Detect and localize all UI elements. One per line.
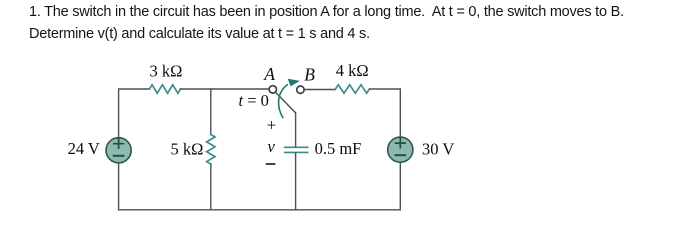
- switch terminal B (open circle): [297, 86, 304, 93]
- voltage source V2 plus sign: [396, 139, 406, 148]
- wire: from 3kΩ to switch terminal A, with junction node to 5kΩ branch: [181, 88, 269, 90]
- voltage source V1 minus sign: [114, 155, 124, 157]
- capacitor C1 0.5mF bottom plate: [285, 151, 308, 153]
- wire: from capacitor bottom plate down to bottom wire: [295, 153, 297, 210]
- wire: from switch blade corner down to capacitor top plate: [295, 113, 297, 147]
- svg-text:3 kΩ: 3 kΩ: [150, 62, 183, 81]
- svg-text:t = 0: t = 0: [239, 91, 269, 110]
- svg-text:5 kΩ: 5 kΩ: [171, 140, 204, 159]
- svg-text:v: v: [268, 137, 276, 156]
- switch terminal A (open circle): [269, 86, 276, 93]
- capacitor voltage polarity minus: [267, 163, 275, 165]
- resistor R3 5kΩ (vertical zigzag): [207, 135, 215, 165]
- resistor R2 4kΩ (zigzag): [336, 85, 370, 93]
- capacitor C1 0.5mF top plate: [285, 146, 308, 148]
- wire: from switch terminal B to 4kΩ: [305, 89, 336, 91]
- switch blade (from A down toward capacitor node): [276, 93, 295, 113]
- wire: 5kΩ branch, top segment from top wire: [210, 89, 212, 135]
- svg-text:4 kΩ: 4 kΩ: [336, 61, 369, 80]
- svg-text:B: B: [304, 65, 315, 85]
- voltage source V2 minus sign: [396, 154, 406, 156]
- wire: 5kΩ branch, bottom segment to bottom wire: [210, 164, 212, 210]
- switch motion arrow arc (A to B): [279, 85, 288, 118]
- wire: from 30V source down to bottom-right corner: [399, 162, 401, 210]
- voltage source V2 30V (circle): [388, 137, 413, 162]
- svg-text:+: +: [267, 116, 276, 135]
- switch motion arrowhead: [288, 79, 300, 87]
- bottom wire (common rail): [119, 209, 401, 211]
- voltage source V1 24V (circle): [106, 138, 131, 163]
- svg-text:30 V: 30 V: [422, 140, 454, 159]
- wire: top-left corner, from 24V source up and right to 3kΩ: [119, 89, 150, 138]
- wire: top-right corner from 4kΩ down to 30V source: [370, 89, 401, 137]
- svg-text:A: A: [263, 64, 275, 84]
- wire: bottom-left corner up to 24V source: [118, 163, 120, 210]
- svg-text:0.5 mF: 0.5 mF: [315, 139, 362, 158]
- svg-text:24 V: 24 V: [68, 139, 100, 158]
- resistor R1 3kΩ (zigzag): [150, 85, 181, 93]
- voltage source V1 plus sign: [114, 139, 124, 148]
